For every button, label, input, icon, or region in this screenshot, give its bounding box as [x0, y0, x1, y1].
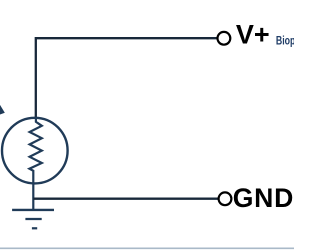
light arrow into photoresistor [0, 102, 5, 116]
terminal V+ [218, 32, 231, 45]
wire from photoresistor top to V+ terminal [36, 38, 217, 117]
photoresistor body (circle) [2, 118, 68, 184]
bottom rule [0, 247, 294, 249]
svg-text:GND: GND [233, 183, 294, 213]
photoresistor zigzag element with leads [29, 117, 41, 209]
ground bar 1 [12, 209, 54, 211]
ground bar 2 [25, 218, 41, 220]
ground bar 3 [32, 227, 37, 229]
wire from photoresistor bottom to GND terminal [33, 198, 218, 200]
svg-text:Biopotential: Biopotential [276, 34, 294, 48]
svg-text:V+: V+ [236, 19, 270, 49]
terminal GND [219, 192, 232, 205]
